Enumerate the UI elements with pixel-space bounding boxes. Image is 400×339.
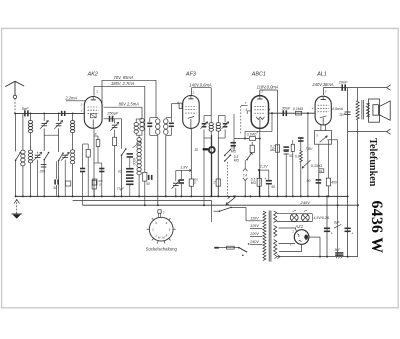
resistor 0,5M <box>258 170 260 178</box>
trimmer below screen wire <box>114 119 116 123</box>
svg-text:100: 100 <box>98 179 103 183</box>
transformer heater winding <box>274 211 277 223</box>
svg-text:400: 400 <box>331 181 337 185</box>
svg-text:2: 2 <box>192 90 195 94</box>
label 8uF <box>334 224 341 228</box>
svg-text:2: 2 <box>151 227 154 231</box>
switch tone 2 <box>247 153 251 159</box>
coil osc 6000 winding <box>138 135 140 137</box>
gap with chevrons 7,4 <box>244 160 246 168</box>
wire bar row1 <box>44 134 58 136</box>
mains plug <box>214 247 219 249</box>
transformer AZ1 filament winding <box>274 225 277 236</box>
osc variable arrow <box>133 141 141 148</box>
svg-text:70V, 85mA: 70V, 85mA <box>114 75 134 80</box>
switch S1b <box>59 153 63 160</box>
capacitor small <box>80 168 85 170</box>
svg-text:Telefunken: Telefunken <box>367 138 378 187</box>
svg-text:50: 50 <box>271 185 275 189</box>
svg-text:5pF: 5pF <box>22 106 29 111</box>
capacitor electrolytic 50 <box>266 180 272 182</box>
switch tone 1 <box>225 150 231 156</box>
resistor cathode AK2 <box>93 129 95 197</box>
svg-text:AL1: AL1 <box>316 72 327 78</box>
speaker <box>369 99 380 122</box>
svg-text:6000: 6000 <box>132 158 136 166</box>
coil osc B <box>140 118 144 122</box>
wire 185V anode <box>93 86 95 95</box>
svg-text:110V: 110V <box>250 217 259 221</box>
bus 245V <box>83 204 358 206</box>
wire AF3 cathode row <box>176 169 191 171</box>
terminal bottom <box>387 129 391 132</box>
capacitor electrolytic 30 <box>283 146 289 148</box>
antenna <box>5 81 24 95</box>
switch S1a <box>44 153 48 160</box>
svg-text:250: 250 <box>39 170 46 174</box>
resistor 2M pot <box>217 150 219 179</box>
capacitor 250uF on screen wire <box>104 118 122 120</box>
resistor anode load ABC1 <box>275 145 279 152</box>
svg-text:2: 2 <box>291 230 294 234</box>
wire drop x347 <box>347 88 349 257</box>
wire 118V anode ABC1 <box>259 90 261 95</box>
switch cathode AL1 <box>320 136 328 142</box>
svg-text:4,5mA: 4,5mA <box>332 106 344 111</box>
coil L2b <box>70 150 74 153</box>
svg-text:1,8V: 1,8V <box>180 166 188 170</box>
coil L1 antenna <box>30 113 32 120</box>
component box 4 <box>65 181 70 186</box>
wire det to ABC1 <box>246 111 248 114</box>
ground <box>16 199 18 214</box>
svg-text:2µF: 2µF <box>338 113 346 117</box>
svg-text:Ω: Ω <box>99 183 101 187</box>
wire speaker bottom <box>348 131 387 133</box>
dashed gang to mains switch <box>227 162 229 199</box>
svg-text:7,8V: 7,8V <box>305 147 313 151</box>
wire antenna row <box>15 112 84 114</box>
grid box AF3 <box>179 103 182 108</box>
box on cathode col <box>92 179 97 185</box>
diode load loop <box>245 130 272 132</box>
capacitor 2uF <box>345 111 351 113</box>
wire cathode ABC1 <box>259 129 261 197</box>
IF transformer 1 secondary loop <box>164 119 168 124</box>
trimmer mid2 <box>62 154 68 156</box>
output transformer primary <box>357 88 359 101</box>
svg-text:70: 70 <box>118 170 122 174</box>
wire bar col82 <box>83 143 89 145</box>
switch osc <box>121 119 123 149</box>
tube base box AL1 <box>314 131 331 145</box>
svg-text:250µF: 250µF <box>106 111 119 116</box>
IF transformer 1 primary loop <box>147 123 152 125</box>
wire tone column <box>233 114 235 151</box>
bottom rail <box>277 256 358 258</box>
svg-text:7,4: 7,4 <box>243 173 248 177</box>
svg-text:2: 2 <box>95 90 98 94</box>
svg-text:2,2mA: 2,2mA <box>64 96 77 101</box>
resistor AF3 cathode <box>190 128 192 179</box>
svg-text:77µF: 77µF <box>117 187 125 191</box>
svg-text:240V,38mA: 240V,38mA <box>311 82 333 87</box>
capacitor electrolytic 1 <box>324 228 330 230</box>
transformer core <box>268 211 270 262</box>
IF transformer 2 primary loop <box>204 115 211 117</box>
wire column x=23 <box>22 113 24 150</box>
output transformer core <box>361 100 363 120</box>
svg-text:2,1V: 2,1V <box>259 164 268 168</box>
svg-text:240V: 240V <box>249 240 259 244</box>
switch S-ant on mast line <box>15 113 17 151</box>
coil osc A <box>134 123 138 126</box>
svg-text:50: 50 <box>289 154 293 158</box>
svg-text:220V: 220V <box>249 232 259 236</box>
wire AZ1 pin2 <box>279 227 296 229</box>
capacitor cathode AF3 <box>179 179 184 181</box>
resistor right <box>291 144 294 151</box>
svg-text:125V: 125V <box>250 224 259 228</box>
svg-text:245V: 245V <box>300 200 311 205</box>
capacitor 50 block <box>56 161 58 179</box>
svg-text:Sockelschaltung: Sockelschaltung <box>146 246 178 251</box>
tap 240V <box>250 243 262 245</box>
capacitor 5pF <box>24 110 26 116</box>
svg-text:7: 7 <box>163 211 165 215</box>
capacitor series on antenna wire <box>61 111 63 116</box>
wire feedback column <box>307 113 309 196</box>
tap 110V <box>246 220 262 222</box>
bus chassis <box>16 195 348 197</box>
bus 2 <box>73 200 212 202</box>
switch mains on bus <box>234 195 236 197</box>
tap 220V <box>250 235 262 237</box>
svg-text:118V,0,0mA: 118V,0,0mA <box>257 84 279 89</box>
tap 125V <box>250 227 262 229</box>
coil L2 <box>72 113 74 120</box>
svg-text:50: 50 <box>146 182 150 186</box>
dashed gang link <box>240 106 242 133</box>
coil L1b <box>28 150 32 153</box>
svg-text:MΩ: MΩ <box>234 158 240 162</box>
wire AZ1 bottom <box>301 244 303 251</box>
wire 70V screen top <box>101 80 103 117</box>
wire AF out <box>269 112 315 114</box>
svg-text:0,1MΩ: 0,1MΩ <box>247 132 257 136</box>
capacitor tone <box>231 142 236 144</box>
svg-text:ABC1: ABC1 <box>251 72 266 78</box>
svg-text:AK2: AK2 <box>87 72 98 78</box>
trimmer AF3 cathode <box>173 182 179 184</box>
switch mains 2 <box>214 210 220 212</box>
fuse <box>227 246 235 249</box>
resistor osc <box>143 172 147 181</box>
svg-text:2: 2 <box>324 89 327 93</box>
wire AZ1 pin5 <box>279 243 296 245</box>
resistor R-b <box>92 180 96 189</box>
svg-text:0,1MΩ: 0,1MΩ <box>311 164 322 168</box>
svg-text:185V, 2,7mA: 185V, 2,7mA <box>111 81 135 86</box>
capacitor 30nF <box>283 110 285 116</box>
wire AZ1 right loop <box>309 236 320 238</box>
socket top marker <box>158 210 161 213</box>
capacitor 250pF <box>41 164 47 166</box>
svg-text:MΩ: MΩ <box>231 149 237 153</box>
wire cap column 1 <box>326 196 328 256</box>
svg-text:MΩ: MΩ <box>251 181 257 185</box>
potentiometer knob <box>203 148 209 150</box>
trimmer C-ant2 <box>58 113 60 121</box>
svg-text:30nF: 30nF <box>282 107 291 111</box>
wire 140V anode AF3 <box>191 88 193 96</box>
svg-text:AF3: AF3 <box>185 72 196 78</box>
svg-text:5nF: 5nF <box>335 248 342 252</box>
svg-text:2: 2 <box>213 180 216 184</box>
svg-text:0,1MΩ: 0,1MΩ <box>293 107 304 111</box>
capacitor electrolytic 2 <box>345 228 351 230</box>
capacitor 50 osc <box>148 175 150 180</box>
transformer HT winding <box>274 240 277 255</box>
IF transformer 2 secondary loop <box>218 115 225 117</box>
wire 86V grid out <box>104 106 142 108</box>
wire 2,1V row <box>259 169 269 171</box>
box 24V <box>319 169 324 173</box>
svg-text:140V,0,6mA: 140V,0,6mA <box>189 82 211 87</box>
switch tone 2b <box>225 155 231 161</box>
svg-text:86V 2,5mA: 86V 2,5mA <box>119 102 140 107</box>
node AF out <box>307 112 309 114</box>
capacitor padder stack <box>127 153 134 155</box>
svg-text:35: 35 <box>194 148 198 152</box>
transformer primary winding <box>263 211 266 261</box>
voltage selector arm <box>238 247 240 249</box>
socket circle Sockelschaltung <box>149 217 173 241</box>
terminal top <box>387 85 391 88</box>
wire x337 <box>327 139 337 141</box>
capacitor 20nF <box>341 84 343 90</box>
capacitor cathode bypass AK2 <box>94 162 102 164</box>
choke feedback <box>298 137 304 139</box>
resistor 0,1MOhm coupling <box>296 111 302 115</box>
resistor tone <box>250 145 254 152</box>
resistor col114 <box>113 137 117 145</box>
wire IF1 to AF3 grid <box>170 104 172 118</box>
svg-text:0,3: 0,3 <box>295 155 300 159</box>
wire 240V anode AL1 <box>322 88 324 95</box>
resistor 400 <box>326 178 330 186</box>
trimmer mid <box>37 152 39 154</box>
output transformer secondary <box>366 104 369 117</box>
svg-text:50: 50 <box>307 179 311 183</box>
trimmer C-ant1 <box>43 113 45 121</box>
svg-text:6436 W: 6436 W <box>368 200 385 253</box>
heater rails + dial lamps <box>277 213 313 215</box>
svg-text:20nF: 20nF <box>338 79 348 84</box>
